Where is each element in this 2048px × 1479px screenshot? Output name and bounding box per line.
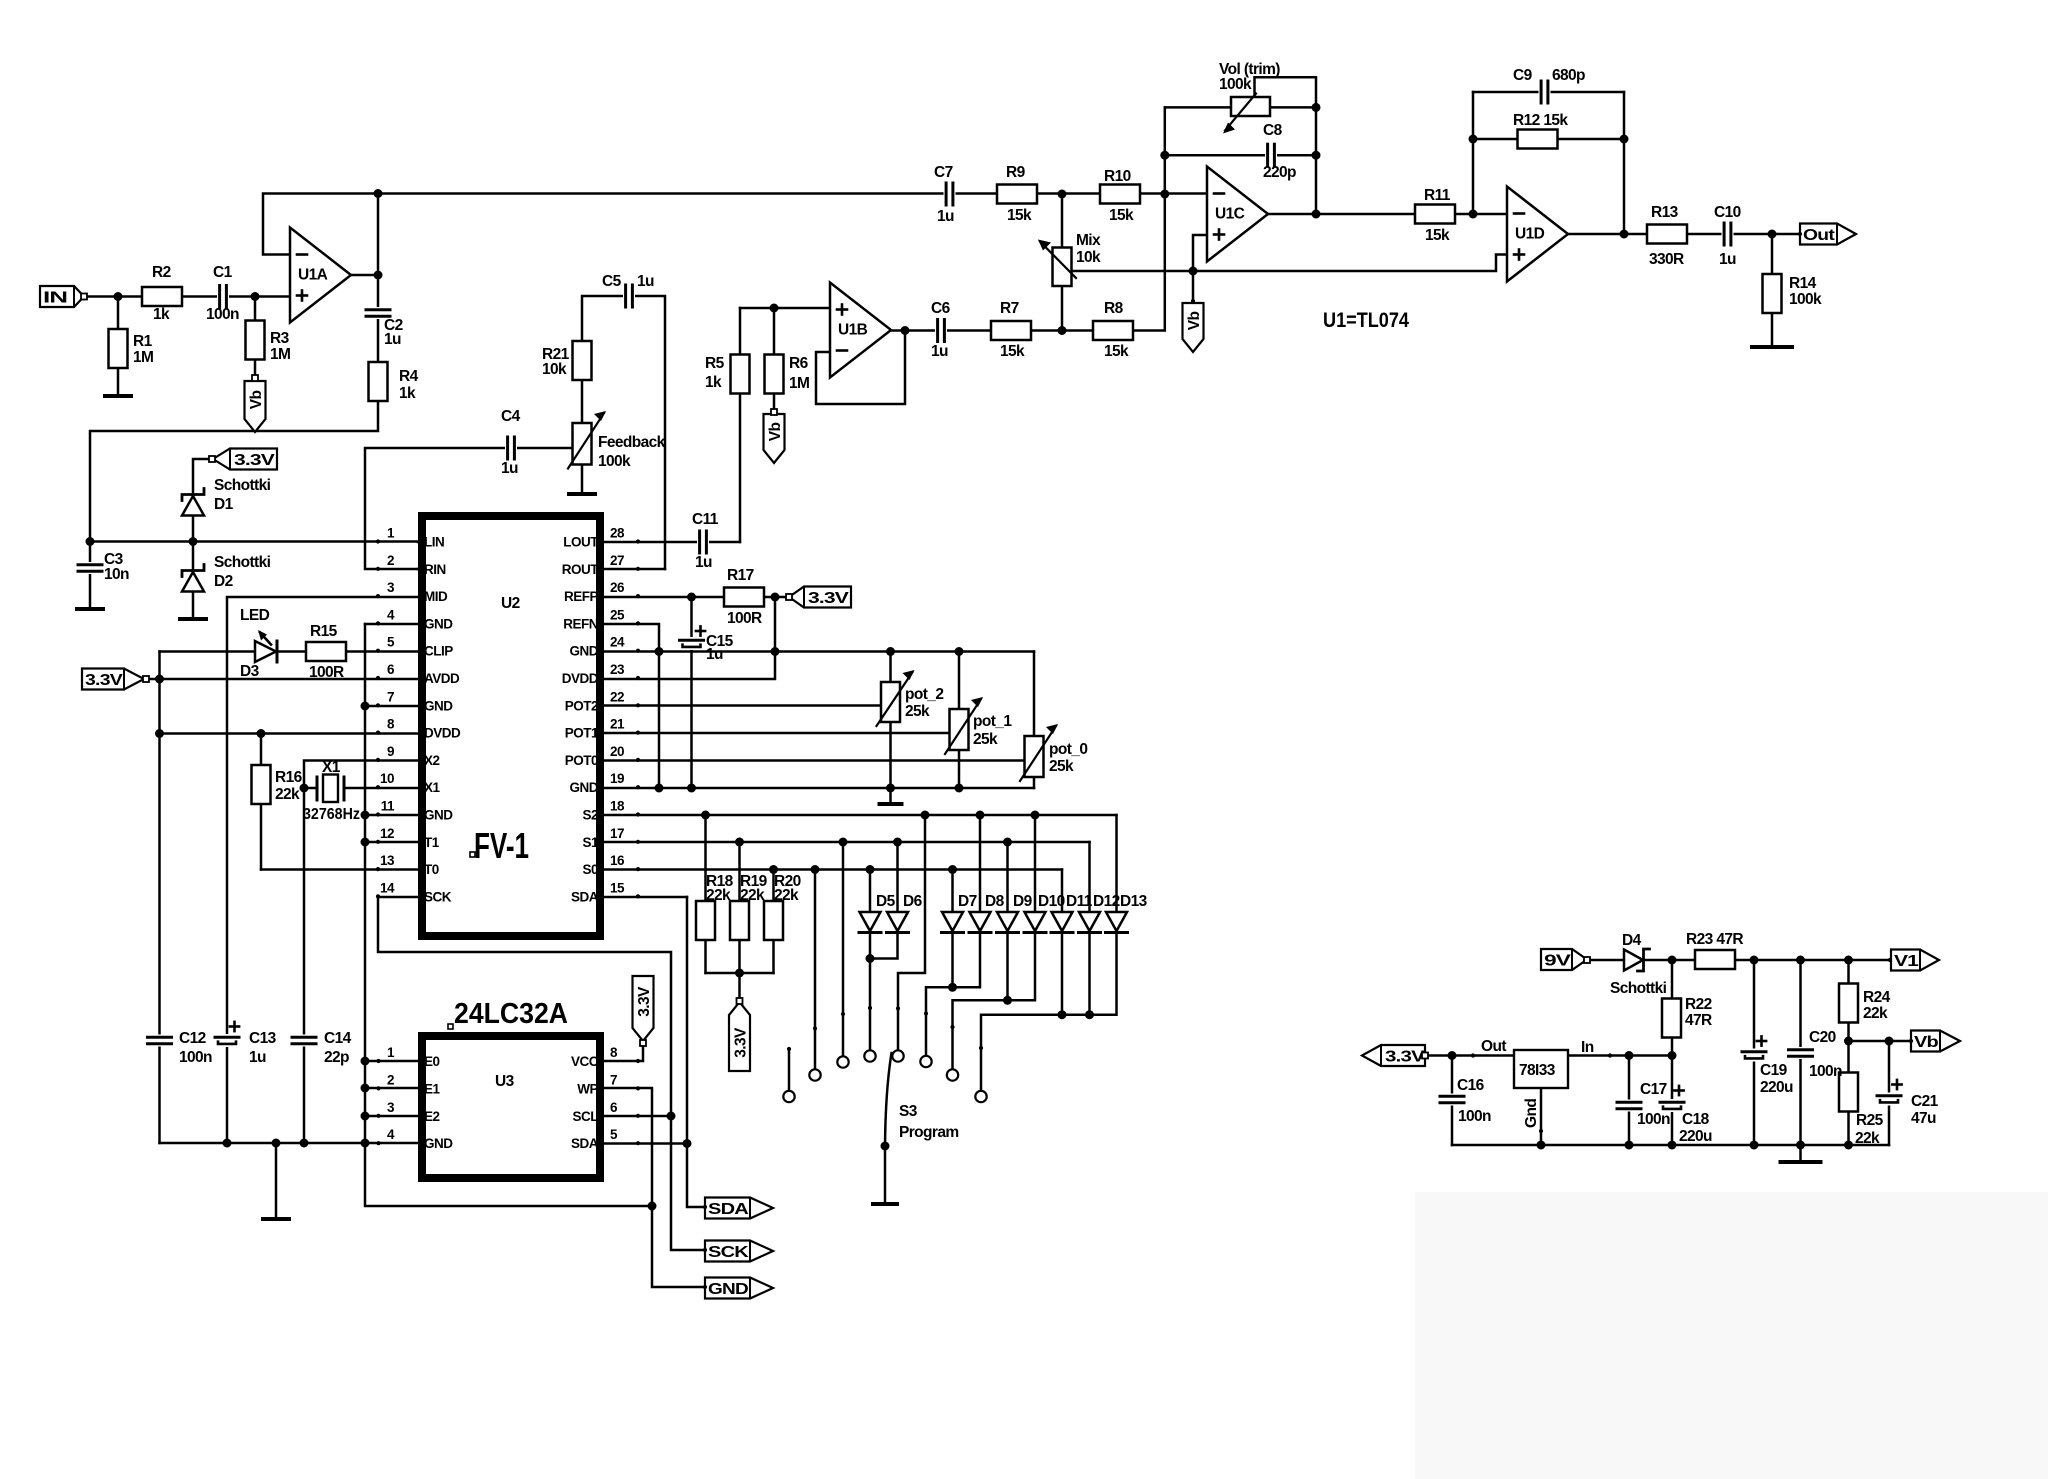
svg-text:78I33: 78I33	[1519, 1062, 1556, 1079]
label R24 value	[1863, 1005, 1888, 1022]
wire S0 row	[604, 868, 1062, 871]
svg-text:10k: 10k	[542, 361, 567, 378]
label C15 value	[706, 646, 723, 663]
ground switch S3	[873, 1202, 897, 1206]
wire RIN row via C4 to Feedback pot	[365, 448, 572, 569]
svg-text:1M: 1M	[789, 375, 809, 392]
power flag 3.3V at D1	[213, 449, 277, 470]
svg-text:C18: C18	[1682, 1111, 1710, 1128]
wire LOUT row through C11	[418, 541, 740, 544]
label C8 value	[1263, 164, 1296, 181]
svg-text:SCL: SCL	[573, 1109, 599, 1124]
resistor R15	[306, 642, 346, 661]
label pot_2	[905, 686, 943, 703]
svg-text:E2: E2	[424, 1109, 440, 1124]
svg-text:LOUT: LOUT	[563, 535, 599, 550]
label Schottki D2	[214, 554, 271, 571]
wire D9 D10 node to switch pos7	[953, 1000, 1008, 1069]
pin dot Out tip	[1798, 232, 1802, 236]
label R7	[1000, 300, 1019, 317]
node REFP C15 junction	[687, 593, 696, 602]
resistor R20	[764, 901, 783, 940]
label C3	[104, 551, 124, 568]
switch S3 contact 2	[809, 1069, 820, 1080]
svg-text:DVDD: DVDD	[424, 726, 461, 741]
label Mix	[1076, 232, 1101, 249]
label R4 value	[399, 385, 416, 402]
wire D7 D8 node to switch pos6	[926, 987, 953, 1056]
wire top row U1A out to U1C - via C7 R9 R10	[378, 192, 1207, 195]
svg-text:R25: R25	[1856, 1112, 1884, 1129]
label R8 value	[1104, 343, 1129, 360]
capacitor C21 electrolytic	[1877, 1093, 1901, 1106]
wire D8 cathode join	[953, 933, 981, 987]
svg-text:19: 19	[610, 771, 624, 786]
pin dot SDA flag	[703, 1205, 707, 1209]
label R20 value	[774, 887, 799, 904]
node S2 R18 junction	[701, 811, 710, 820]
label R24	[1863, 989, 1891, 1006]
wire C19 column	[1753, 960, 1756, 1145]
wire S1 to switch pos3	[842, 842, 845, 1056]
wire D5 anode	[869, 870, 872, 913]
op-amp U1A	[290, 228, 351, 323]
svg-text:Vb: Vb	[248, 391, 265, 410]
pin dot IN tip	[81, 294, 87, 300]
pin dots U3 left	[376, 1059, 380, 1145]
label R23	[1686, 931, 1743, 948]
svg-text:1u: 1u	[937, 208, 954, 225]
svg-text:POT2: POT2	[565, 698, 598, 713]
svg-text:220u: 220u	[1679, 1128, 1712, 1145]
svg-text:1: 1	[387, 526, 395, 541]
node GND24 REFN junction	[655, 647, 664, 656]
svg-text:R10: R10	[1104, 168, 1131, 185]
wire U1D - node column	[1472, 92, 1475, 214]
label R6 value	[789, 375, 809, 392]
svg-text:25k: 25k	[905, 703, 930, 720]
svg-text:7: 7	[387, 689, 394, 704]
power flag Vb at R3	[245, 381, 266, 432]
wire U1D - lead	[1473, 213, 1507, 216]
node S1 D6 junction	[893, 838, 902, 847]
wire GND pin4 row	[365, 623, 418, 626]
ground R14	[1752, 345, 1792, 349]
switch S3 contact 6	[920, 1056, 931, 1067]
svg-text:Schottki: Schottki	[1610, 980, 1667, 997]
pin dot reg gnd lead	[1539, 1129, 1543, 1133]
wire R20 column	[772, 870, 775, 974]
svg-text:D2: D2	[214, 573, 233, 590]
wire D13 D12 D11 cathode bus to switch pos8	[981, 933, 1117, 1091]
wire E0 row	[365, 1060, 418, 1063]
svg-text:22k: 22k	[706, 887, 731, 904]
pin dot GND flag	[703, 1285, 707, 1289]
label R10	[1104, 168, 1131, 185]
label C20	[1809, 1029, 1836, 1046]
node U1B output junction	[901, 326, 910, 335]
svg-text:C7: C7	[934, 164, 953, 181]
wire D11 anode	[1061, 870, 1064, 913]
wire R3 branch to Vb	[254, 297, 257, 379]
connector IN	[40, 286, 84, 307]
wire C15 column	[690, 597, 693, 788]
svg-text:R14: R14	[1789, 275, 1817, 292]
svg-text:C16: C16	[1457, 1077, 1485, 1094]
svg-text:D3: D3	[240, 663, 260, 680]
svg-text:R22: R22	[1685, 996, 1712, 1013]
svg-text:25k: 25k	[1049, 758, 1074, 775]
label C16	[1457, 1077, 1485, 1094]
wire C3 branch to ground	[89, 542, 92, 610]
IC U3 24LC32A	[422, 1036, 600, 1178]
label C11 value	[695, 554, 712, 571]
svg-text:2: 2	[387, 1072, 394, 1087]
node S0 D5 junction	[866, 865, 875, 874]
svg-text:8: 8	[387, 717, 395, 732]
wire S1 row	[604, 841, 1090, 844]
label R19	[740, 873, 768, 890]
wire D6 cathode join	[870, 933, 898, 959]
svg-text:1u: 1u	[695, 554, 712, 571]
node E1 junction	[361, 1084, 370, 1093]
wire Vol C8 node down to U1C -	[1164, 107, 1167, 194]
svg-text:100n: 100n	[1637, 1111, 1670, 1128]
connector Out	[1800, 224, 1856, 245]
pin numbers U2 right	[610, 526, 625, 896]
svg-text:1u: 1u	[249, 1049, 266, 1066]
wire Vol trim wiper loop	[1255, 77, 1317, 214]
svg-text:FV-1: FV-1	[474, 825, 529, 866]
wire Vol trim row	[1165, 106, 1316, 109]
svg-text:R17: R17	[727, 567, 754, 584]
pin dot SCK flag	[703, 1248, 707, 1252]
svg-text:100n: 100n	[179, 1049, 212, 1066]
label pot_0	[1049, 741, 1087, 758]
svg-text:3.3V: 3.3V	[234, 452, 276, 469]
wire 3.3V rail column left	[158, 652, 161, 1144]
svg-text:C4: C4	[501, 408, 521, 425]
svg-text:22k: 22k	[275, 786, 300, 803]
svg-text:R11: R11	[1424, 187, 1451, 204]
label C17	[1640, 1081, 1667, 1098]
pin numbers U3 right	[610, 1045, 618, 1142]
svg-text:SDA: SDA	[571, 889, 599, 904]
label C5 value	[637, 273, 654, 290]
wire POT2 row	[604, 704, 881, 707]
svg-text:DVDD: DVDD	[562, 671, 599, 686]
svg-text:GND: GND	[424, 1136, 453, 1151]
svg-text:100k: 100k	[1219, 76, 1252, 93]
wire D10 anode	[1034, 815, 1037, 912]
wire D10 cathode join	[1008, 933, 1036, 1000]
wire U1C + jog	[1193, 235, 1207, 271]
svg-text:16: 16	[610, 853, 625, 868]
resistor R10	[1100, 185, 1140, 204]
svg-text:680p: 680p	[1552, 67, 1585, 84]
pin1 mark U3	[448, 1024, 453, 1029]
label C8	[1263, 122, 1283, 139]
power flag 9V	[1541, 949, 1587, 970]
label R14	[1789, 275, 1817, 292]
wire U1A out down through C2 R4 to left feedback row	[90, 194, 378, 542]
pin dots U3 right	[636, 1059, 640, 1145]
label C11	[692, 511, 719, 528]
node D5 D6 cathode junction	[866, 954, 875, 963]
resistor R13	[1647, 225, 1687, 244]
connector V1	[1891, 950, 1939, 971]
node S2 D10 junction	[1031, 811, 1040, 820]
svg-text:R1: R1	[133, 333, 153, 350]
node U1A feedback junction	[374, 189, 383, 198]
svg-text:IN: IN	[43, 290, 68, 307]
wire R5 column	[739, 308, 742, 542]
label R17 value	[727, 610, 762, 627]
node GND24 pot2 junction	[886, 647, 895, 656]
svg-text:17: 17	[610, 826, 624, 841]
label C4 value	[501, 460, 518, 477]
node C10 Out junction	[1768, 230, 1777, 239]
diode D6	[887, 912, 909, 933]
svg-text:26: 26	[610, 580, 625, 595]
wire FV1 SDA row	[604, 896, 687, 899]
svg-text:LIN: LIN	[424, 535, 444, 550]
label R5 value	[705, 374, 722, 391]
svg-text:C6: C6	[931, 300, 951, 317]
wire U1A output	[350, 274, 378, 277]
wire R19 column	[738, 842, 741, 973]
label R18 value	[706, 887, 731, 904]
svg-text:100k: 100k	[598, 453, 631, 470]
label C12 value	[179, 1049, 212, 1066]
svg-text:WP: WP	[577, 1081, 598, 1096]
wire crystal left lead	[304, 787, 317, 790]
svg-text:32768Hz: 32768Hz	[303, 806, 360, 823]
potentiometer pot_0 25k	[1020, 724, 1058, 781]
svg-text:13: 13	[380, 853, 395, 868]
label Schottki D4	[1610, 980, 1667, 997]
svg-text:220p: 220p	[1263, 164, 1296, 181]
capacitor C12	[148, 1035, 172, 1047]
svg-text:100n: 100n	[1809, 1063, 1842, 1080]
node R24 junction	[1844, 956, 1853, 965]
label C18 value	[1679, 1128, 1712, 1145]
svg-text:3: 3	[387, 580, 395, 595]
label C7 value	[937, 208, 954, 225]
svg-text:9V: 9V	[1544, 953, 1572, 970]
pin names U3 left	[424, 1054, 453, 1151]
svg-text:AVDD: AVDD	[424, 671, 460, 686]
diode D5	[859, 912, 881, 933]
label C19 value	[1760, 1079, 1793, 1096]
svg-text:R6: R6	[789, 355, 809, 372]
wire power ground rail	[1452, 1144, 1889, 1147]
power flag 3.3V power	[1362, 1045, 1426, 1066]
resistor R23	[1695, 950, 1735, 969]
label R6	[789, 355, 809, 372]
label C9 value	[1552, 67, 1585, 84]
label R16	[275, 769, 303, 786]
svg-text:pot_2: pot_2	[905, 686, 943, 703]
switch S3 contact 1	[783, 1091, 794, 1102]
svg-text:R23 47R: R23 47R	[1686, 931, 1743, 948]
svg-text:pot_1: pot_1	[973, 713, 1012, 730]
node GND19 REFN junction	[655, 784, 664, 793]
svg-text:20: 20	[610, 744, 624, 759]
node T1 junction	[361, 838, 370, 847]
label R9 value	[1007, 207, 1032, 224]
label R18	[706, 873, 734, 890]
resistor R12	[1518, 130, 1558, 149]
svg-text:7: 7	[610, 1072, 617, 1087]
ground power	[1781, 1160, 1821, 1164]
label U2 refdes	[501, 595, 520, 612]
node C8 right junction	[1312, 151, 1321, 160]
svg-text:1u: 1u	[931, 343, 948, 360]
svg-text:100R: 100R	[309, 664, 344, 681]
label reg In	[1581, 1039, 1594, 1056]
wire C16 column	[1451, 1056, 1454, 1146]
svg-text:C8: C8	[1263, 122, 1283, 139]
plus C19	[1757, 1036, 1766, 1045]
label C9	[1513, 67, 1533, 84]
svg-text:1u: 1u	[1719, 251, 1736, 268]
plus C15	[696, 626, 705, 635]
diode D10	[1024, 912, 1046, 933]
wire CLIP row through LED R15	[160, 650, 419, 653]
pin dot Vb power tip	[1909, 1039, 1913, 1043]
label Program	[899, 1124, 959, 1141]
node D9 D10 cathode junction	[1003, 996, 1012, 1005]
svg-text:pot_0: pot_0	[1049, 741, 1087, 758]
label C10	[1714, 204, 1741, 221]
node gnd rail MID junction	[223, 1139, 232, 1148]
wire Vb row	[1849, 1040, 1912, 1043]
wire D7 anode	[951, 870, 954, 913]
svg-text:POT1: POT1	[565, 726, 599, 741]
svg-text:1: 1	[387, 1045, 395, 1060]
resistor R2	[142, 287, 182, 306]
svg-text:Vb: Vb	[1914, 1034, 1938, 1051]
wire C14 column crystal to gnd rail	[303, 788, 306, 1143]
pin dot Vb U1C tip	[1191, 299, 1195, 303]
ground D2	[180, 617, 206, 621]
wire T1 row	[365, 841, 418, 844]
svg-text:3.3V: 3.3V	[636, 986, 653, 1017]
wire D5 cathode to switch pos4	[869, 933, 872, 1051]
label R14 value	[1789, 291, 1822, 308]
wire R16 column	[260, 734, 263, 870]
pin dot V1 tip	[1888, 958, 1892, 962]
label C1	[213, 264, 233, 281]
label Vol trim	[1219, 61, 1280, 78]
svg-text:28: 28	[610, 526, 625, 541]
node GND19 C15 junction	[687, 784, 696, 793]
label C7	[934, 164, 953, 181]
svg-text:47u: 47u	[1911, 1110, 1936, 1127]
node SCL SCK junction	[667, 1112, 676, 1121]
svg-text:3: 3	[387, 1100, 395, 1115]
capacitor C10	[1722, 223, 1734, 245]
svg-text:18: 18	[610, 799, 625, 814]
wire R14 branch to ground	[1771, 234, 1774, 347]
resistor R25	[1839, 1073, 1858, 1112]
node R23 C19 junction	[1750, 956, 1759, 965]
pin names U3 right	[571, 1054, 599, 1151]
svg-text:Schottki: Schottki	[214, 554, 271, 571]
label reg Out	[1481, 1038, 1506, 1055]
svg-text:22k: 22k	[1855, 1130, 1880, 1147]
svg-text:MID: MID	[424, 589, 448, 604]
label R3	[270, 330, 290, 347]
svg-text:2: 2	[387, 553, 394, 568]
resistor R5	[731, 355, 750, 394]
wire D6 anode	[896, 842, 899, 912]
resistor R17	[724, 588, 764, 607]
wire VCC row to 3.3V	[604, 1043, 643, 1061]
svg-text:SDA: SDA	[571, 1136, 599, 1151]
node Vol right junction	[1312, 103, 1321, 112]
svg-text:C13: C13	[249, 1030, 277, 1047]
svg-text:Feedback: Feedback	[598, 434, 666, 451]
node rail C17 junction	[1625, 1141, 1634, 1150]
wire U1B feedback loop	[816, 331, 905, 405]
wire regulator Gnd lead	[1540, 1088, 1543, 1145]
capacitor C8	[1265, 144, 1277, 166]
svg-text:10n: 10n	[104, 566, 129, 583]
pin1 mark U2	[470, 852, 475, 857]
capacitor C14	[292, 1035, 316, 1047]
power flag Vb at U1C	[1183, 303, 1204, 352]
wire S2 to switch pos5	[898, 815, 925, 1050]
diode D8	[969, 912, 991, 933]
svg-text:D11: D11	[1066, 893, 1093, 910]
svg-text:C20: C20	[1809, 1029, 1836, 1046]
label R5	[705, 355, 725, 372]
node R12 left junction	[1469, 135, 1478, 144]
capacitor C2	[366, 307, 390, 319]
svg-text:U1D: U1D	[1515, 226, 1545, 243]
pin dot 3.3V VCC tip	[640, 1040, 646, 1046]
wire DVDD row	[160, 732, 419, 735]
node AVDD junction	[155, 675, 164, 684]
svg-text:15k: 15k	[1109, 207, 1134, 224]
svg-text:C14: C14	[324, 1030, 352, 1047]
label LED	[240, 607, 270, 624]
svg-text:ROUT: ROUT	[562, 562, 599, 577]
svg-text:C17: C17	[1640, 1081, 1667, 1098]
switch S3 contact 3	[837, 1056, 848, 1067]
label Gnd rotated	[1523, 1099, 1540, 1128]
svg-text:REFN: REFN	[563, 616, 598, 631]
wire pot_2 ground stem	[889, 788, 892, 804]
svg-text:SCK: SCK	[708, 1244, 750, 1261]
wire R1 branch to ground	[117, 297, 120, 397]
wire bus to 3.3V flag	[738, 973, 741, 1001]
label R9	[1006, 164, 1026, 181]
label C2 value	[384, 331, 401, 348]
node GND7 junction	[361, 702, 370, 711]
svg-text:Program: Program	[899, 1124, 959, 1141]
resistor R7	[991, 321, 1031, 340]
svg-text:1k: 1k	[153, 306, 170, 323]
pin dot 3.3V D1 tip	[209, 456, 215, 462]
wire D11 cathode	[1061, 933, 1064, 1015]
svg-text:22k: 22k	[1863, 1005, 1888, 1022]
wire WP row down to GND flag	[604, 1088, 705, 1287]
label R15	[310, 623, 338, 640]
svg-text:15k: 15k	[1104, 343, 1129, 360]
